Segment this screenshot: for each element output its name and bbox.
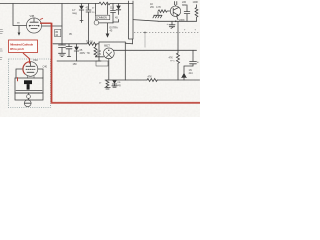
red annotation box [9, 40, 38, 53]
vertical x187 w/ cap [184, 6, 190, 22]
wire y20 bottom of twin [133, 20, 158, 22]
vertical x196.5 w/ resistor [195, 5, 198, 22]
ground (x62) [59, 53, 66, 56]
red wire from tube V3B [40, 22, 51, 24]
box top center (99,42) [99, 42, 125, 61]
resistor on y80 [147, 79, 157, 82]
tube V2 [103, 48, 114, 59]
diode x184 vertical [182, 77, 187, 80]
vertical x125 [124, 42, 126, 80]
signal arrow down [18, 26, 20, 33]
ground hatch left of transistor [153, 12, 162, 18]
svg-text:TO 1K: TO 1K [86, 40, 93, 44]
svg-text:2W: 2W [150, 5, 154, 9]
resistor vertical x95 [94, 44, 97, 57]
wire V2 right y50 [114, 49, 197, 51]
wire V2 bottom drop [108, 59, 110, 80]
transistor emitter drop [177, 16, 178, 20]
resistor on top bus [99, 2, 110, 5]
transformer box outer [15, 78, 43, 93]
svg-text:414: 414 [189, 71, 194, 75]
bus y44 [53, 43, 87, 45]
red tick near tube V3B [40, 18, 43, 19]
tube V3B [26, 18, 41, 33]
wire vertical x62 from bus [61, 4, 63, 45]
red highlight arc on tube V3A [23, 62, 31, 74]
diode D (x76.5) [76, 44, 78, 61]
junction dot on dashed line [144, 32, 146, 34]
svg-text:R5 to pin 6: R5 to pin 6 [10, 47, 24, 51]
ground under resistor [105, 88, 110, 89]
dashed enclosure box bottom-left [9, 59, 51, 108]
tube V3A [23, 62, 38, 77]
svg-text:MMF: MMF [182, 3, 188, 7]
svg-text:113: 113 [110, 6, 114, 10]
svg-text:220K: 220K [179, 18, 185, 22]
diode x118.5 [118, 4, 120, 6]
wire y21.3 [158, 20, 197, 22]
rect label box (96,61) [96, 61, 108, 66]
svg-text:7D: 7D [87, 51, 90, 55]
wire resistor to tube V2 [96, 56, 104, 58]
electrolytic cap x172 [169, 21, 175, 28]
diode top cluster x81.5 [81, 4, 83, 6]
bus y61 [57, 60, 101, 62]
cap x113 [111, 4, 116, 24]
svg-text:V3A: V3A [33, 58, 38, 62]
red diagonal pointer [23, 53, 30, 64]
vertical x107.5 top [107, 4, 109, 15]
value box (55,29) [55, 29, 61, 36]
component box top center [95, 15, 110, 19]
svg-text:6BZ7: 6BZ7 [104, 44, 110, 48]
svg-text:4.7K: 4.7K [156, 5, 161, 9]
capacitor C (x62) [59, 45, 66, 53]
transformer core black [24, 80, 32, 84]
capacitor x193 [190, 50, 197, 66]
resistor horiz left of transistor [158, 10, 170, 13]
svg-text:400V: 400V [80, 51, 86, 55]
svg-text:COMMON: COMMON [96, 17, 107, 20]
svg-text:meg: meg [72, 12, 77, 15]
red annotation text [10, 42, 33, 51]
transistor Q1 [170, 6, 180, 16]
ground under diode [112, 86, 117, 87]
glyph in box2 [27, 95, 31, 99]
resistor x107.5 vertical [106, 80, 109, 87]
faint vertical x145 [144, 33, 146, 48]
circle below box [94, 20, 99, 25]
red tick transformer [17, 77, 19, 81]
svg-text:150: 150 [73, 62, 78, 66]
wire V2 anode up / arrow [107, 23, 109, 34]
svg-text:100K: 100K [193, 0, 199, 4]
lamp [24, 100, 31, 107]
red bottom run [51, 102, 200, 104]
cap above transistor [174, 2, 176, 7]
tiny gray labels [17, 0, 200, 87]
wire left drop [13, 4, 27, 26]
cap x88.5 [86, 4, 91, 44]
red vertical trunk [51, 23, 53, 103]
box2 [16, 90, 42, 92]
svg-text:V3B: V3B [30, 14, 35, 18]
wire x178 transistor to y50 [177, 21, 179, 50]
wire tube V3B to red node [42, 25, 62, 27]
tube V3A leads [16, 69, 43, 78]
svg-text:47K: 47K [169, 56, 174, 60]
twin verticals x128/x133 [129, 1, 134, 39]
red overlay [9, 18, 201, 103]
resistor x178 vertical [177, 50, 180, 80]
vertical x95.5 top [95, 4, 97, 15]
cluster wire y83 [105, 79, 125, 81]
dashed mystery line y32.5 [134, 32, 200, 34]
capacitor C2 (x69) [66, 44, 72, 57]
svg-text:C40: C40 [43, 65, 48, 69]
wire box to x113 [99, 22, 113, 24]
svg-text:Miswired Cathode: Miswired Cathode [10, 42, 33, 46]
wire box-top to twin verticals [125, 39, 132, 44]
long wire y80 [125, 79, 199, 81]
svg-text:TP C: TP C [170, 61, 175, 63]
svg-text:115: 115 [97, 52, 101, 56]
left edge scan marks [0, 30, 3, 60]
wire top bus [0, 3, 133, 5]
resistor on bus y44 [87, 42, 98, 45]
svg-text:47K: 47K [148, 75, 153, 79]
diode x114.5 [112, 80, 117, 84]
